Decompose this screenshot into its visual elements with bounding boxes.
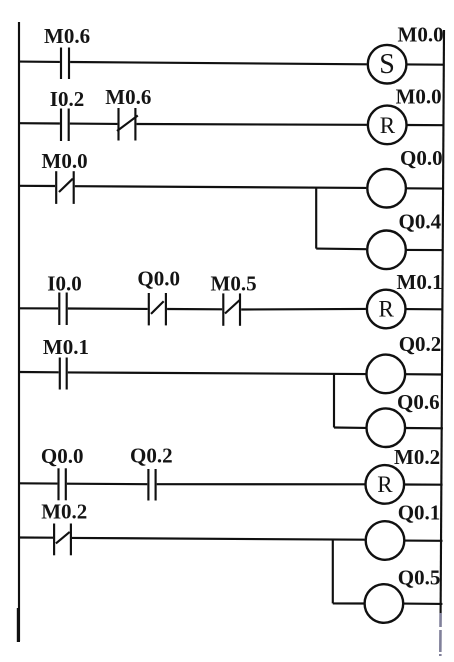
left power rail bbox=[18, 22, 20, 641]
coil Q0.6 bbox=[367, 408, 406, 447]
wire rung6 to coil bbox=[157, 483, 365, 485]
wire rung4 mid1 bbox=[68, 307, 148, 310]
wire rung5 left bbox=[19, 371, 59, 373]
wire rung1 right bbox=[407, 63, 443, 65]
svg-text:M0.0: M0.0 bbox=[396, 85, 442, 109]
coil M0.2 reset (R) bbox=[366, 465, 405, 504]
svg-text:Q0.0: Q0.0 bbox=[137, 267, 180, 291]
svg-text:M0.6: M0.6 bbox=[44, 24, 90, 48]
branch wire rung3 vertical bbox=[315, 188, 317, 249]
svg-text:Q0.6: Q0.6 bbox=[397, 390, 440, 414]
branch wire rung3 bottom bbox=[316, 248, 366, 251]
coil M0.0 set (S) bbox=[368, 45, 407, 84]
contact M0.6 (NC) bbox=[117, 108, 138, 141]
contact I0.0 (NO) bbox=[59, 293, 66, 326]
contact I0.2 (NO) bbox=[61, 109, 69, 142]
wire rung4 left bbox=[19, 307, 58, 309]
wire rung2 right bbox=[407, 124, 444, 126]
wire rung6 mid bbox=[67, 483, 147, 486]
svg-text:M0.1: M0.1 bbox=[397, 270, 443, 294]
wire rung6 right bbox=[404, 483, 443, 485]
svg-text:M0.5: M0.5 bbox=[211, 272, 257, 296]
coil M0.0 reset (R) bbox=[368, 106, 407, 145]
contact M0.2 (NC) bbox=[54, 524, 71, 556]
wire rung3 left bbox=[19, 185, 55, 187]
svg-text:Q0.0: Q0.0 bbox=[400, 146, 443, 170]
wire rung7 left bbox=[19, 536, 53, 538]
svg-text:Q0.1: Q0.1 bbox=[398, 501, 441, 525]
coil Q0.1 bbox=[366, 521, 405, 560]
contact Q0.0 (NC) bbox=[149, 293, 166, 325]
contact M0.0 (NC) bbox=[56, 171, 73, 204]
svg-text:Q0.0: Q0.0 bbox=[41, 444, 84, 468]
branch wire rung5 vertical bbox=[333, 374, 335, 427]
wire rung3 to coil bbox=[75, 186, 367, 188]
svg-text:M0.2: M0.2 bbox=[41, 500, 87, 524]
wire rung7 right bbox=[404, 540, 442, 542]
coil Q0.2 bbox=[367, 355, 406, 394]
svg-text:Q0.4: Q0.4 bbox=[399, 210, 442, 234]
svg-text:S: S bbox=[379, 49, 395, 80]
contact Q0.2 rung6 (NO) bbox=[148, 469, 155, 501]
wire rung5 to coil bbox=[68, 372, 366, 374]
wire rung5 right bbox=[405, 373, 443, 375]
wire rung7 to coil bbox=[72, 538, 365, 540]
wire rung4 mid3 bbox=[241, 308, 366, 311]
contact Q0.0 rung6 (NO) bbox=[59, 468, 66, 500]
svg-text:I0.2: I0.2 bbox=[50, 87, 84, 111]
coil Q0.4 bbox=[367, 231, 406, 270]
wire Q0.4 right bbox=[406, 249, 443, 251]
svg-text:M0.0: M0.0 bbox=[42, 149, 88, 173]
svg-text:M0.0: M0.0 bbox=[398, 22, 444, 46]
svg-text:I0.0: I0.0 bbox=[47, 272, 81, 296]
wire rung4 mid2 bbox=[167, 308, 222, 310]
wire rung4 right bbox=[406, 308, 444, 310]
coil Q0.0 bbox=[367, 169, 406, 208]
wire rung6 left bbox=[19, 482, 57, 484]
coil M0.1 reset (R) bbox=[367, 290, 406, 329]
coil Q0.5 bbox=[365, 584, 404, 623]
branch wire rung7 bottom bbox=[333, 602, 365, 604]
wire Q0.5 right bbox=[403, 603, 442, 605]
svg-text:R: R bbox=[380, 113, 396, 138]
svg-text:Q0.2: Q0.2 bbox=[130, 443, 173, 467]
svg-text:M0.2: M0.2 bbox=[394, 445, 440, 469]
branch wire rung7 vertical bbox=[332, 540, 334, 604]
wire rung1 left bbox=[19, 61, 60, 63]
svg-text:M0.6: M0.6 bbox=[105, 85, 151, 109]
wire Q0.6 right bbox=[405, 427, 443, 429]
svg-text:R: R bbox=[379, 297, 395, 322]
svg-text:Q0.2: Q0.2 bbox=[399, 332, 442, 356]
right power rail bbox=[441, 30, 444, 613]
contact M0.6 (NO) bbox=[61, 48, 69, 80]
branch wire rung5 bottom bbox=[334, 426, 366, 429]
svg-text:Q0.5: Q0.5 bbox=[398, 565, 441, 589]
contact M0.1 (NO) bbox=[60, 358, 67, 390]
wire rung1 middle bbox=[70, 62, 367, 64]
contact M0.5 (NC) bbox=[223, 293, 240, 325]
wire rung2 mid1 bbox=[70, 123, 118, 125]
wire rung2 mid2 bbox=[137, 123, 367, 126]
wire rung3 right bbox=[406, 187, 444, 189]
wire rung2 left bbox=[19, 122, 60, 124]
svg-text:R: R bbox=[377, 472, 393, 497]
svg-text:M0.1: M0.1 bbox=[43, 335, 89, 359]
